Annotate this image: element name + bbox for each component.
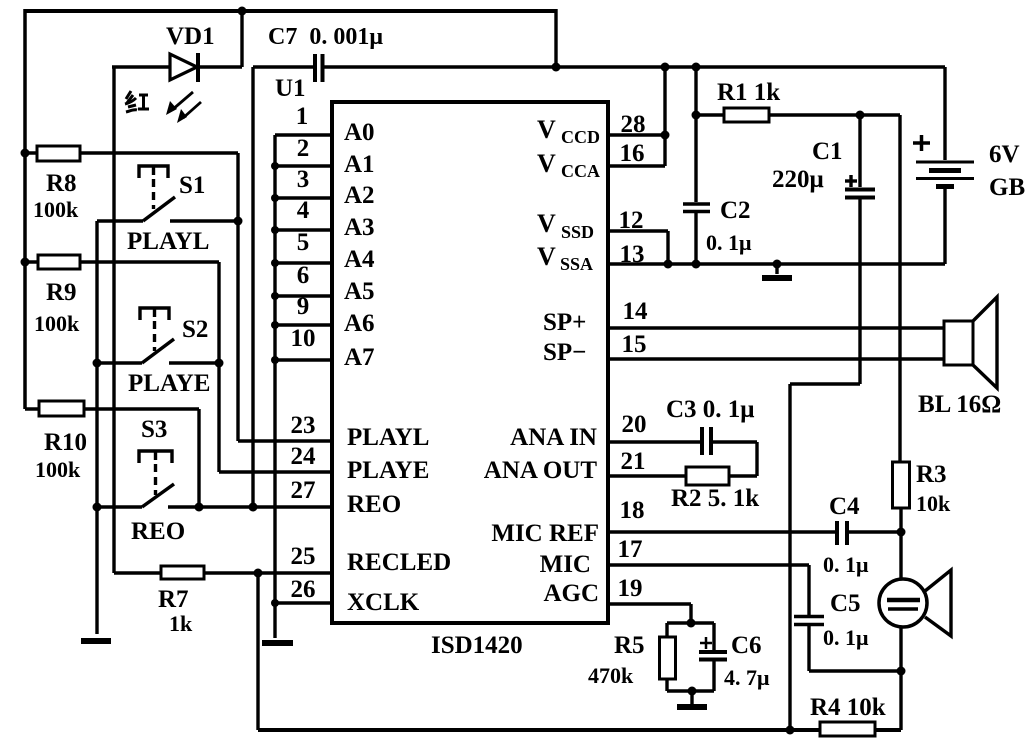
pin label VSSD bbox=[537, 209, 594, 242]
wire: pin15 SP- y=359 to speaker bbox=[608, 357, 944, 361]
svg-text:1: 1 bbox=[296, 103, 309, 130]
svg-text:R10: R10 bbox=[44, 429, 87, 456]
svg-text:100k: 100k bbox=[35, 457, 81, 482]
C1 plus sign bbox=[845, 175, 857, 187]
ground: switch common bbox=[81, 638, 111, 644]
svg-text:CCA: CCA bbox=[561, 161, 600, 181]
IC U1 body bbox=[332, 102, 608, 623]
resistor R1 lead wire y=115 bbox=[696, 113, 900, 116]
junction dot: S2 left / ground rail bbox=[93, 359, 102, 368]
wire: C6 bottom stem x=714 bbox=[712, 661, 715, 691]
junction dot: bottom rail / analog ground drop bbox=[786, 726, 795, 735]
capacitor C5 plates bbox=[794, 617, 824, 625]
label PLAYL (switch) bbox=[127, 228, 209, 255]
svg-text:A7: A7 bbox=[344, 344, 375, 371]
junction dot: R5/C6 bottom bbox=[688, 687, 697, 696]
svg-text:S3: S3 bbox=[141, 416, 167, 443]
junction dot: S1 right contact bbox=[234, 217, 243, 226]
svg-text:VD1: VD1 bbox=[166, 23, 215, 50]
resistor R10 lead wire y=409 bbox=[25, 407, 199, 410]
svg-text:1k: 1k bbox=[169, 611, 193, 636]
wire: pin2 A1 y=166 bbox=[275, 164, 332, 167]
pin label A2 bbox=[344, 182, 375, 209]
svg-text:V: V bbox=[537, 209, 556, 238]
wire: C5 bottom to mic bottom y=671 bbox=[809, 669, 901, 672]
ground: bus ground symbol bbox=[262, 640, 293, 646]
svg-text:16: 16 bbox=[620, 140, 645, 167]
junction dot: R5/C6 top bbox=[687, 619, 696, 628]
wire: pin10 A7 y=360 bbox=[275, 358, 332, 361]
label S1 bbox=[179, 172, 205, 199]
wire: pin5 A4 y=263 bbox=[275, 261, 332, 264]
microphone B body bbox=[879, 579, 927, 627]
svg-text:S1: S1 bbox=[179, 172, 205, 199]
junction dot: REO wire / R10 branch bbox=[195, 503, 204, 512]
svg-text:C2: C2 bbox=[720, 197, 751, 224]
label R3 bbox=[916, 461, 947, 488]
resistor R10 body bbox=[39, 401, 84, 416]
pin label ANA IN bbox=[510, 424, 597, 451]
pin number 28 bbox=[621, 111, 646, 138]
wire: pin26 XCLK y=603 bbox=[275, 601, 332, 604]
pin label XCLK bbox=[347, 589, 420, 616]
wire: C3/R2 right join x=757 (y442-476) bbox=[755, 442, 758, 476]
battery GB plates bbox=[916, 162, 974, 187]
svg-text:V: V bbox=[537, 242, 556, 271]
label C3 value bbox=[666, 396, 754, 423]
wire: pin3 A2 y=198 bbox=[275, 196, 332, 199]
wire: address/XCLK ground bus x=275 (y135-637) bbox=[273, 135, 276, 638]
capacitor C4 plates bbox=[837, 521, 847, 545]
pin number 3 bbox=[297, 166, 310, 193]
svg-text:A1: A1 bbox=[344, 151, 375, 178]
svg-text:C6: C6 bbox=[731, 632, 762, 659]
label S2 bbox=[182, 316, 208, 343]
pin number 1 bbox=[296, 103, 309, 130]
svg-text:19: 19 bbox=[618, 575, 643, 602]
junction dot: VSS rail / ground stub bbox=[773, 260, 782, 269]
ground: VSS rail ground symbol bbox=[762, 264, 792, 278]
svg-text:C7 0. 001μ: C7 0. 001μ bbox=[268, 24, 383, 50]
speaker BL horn bbox=[973, 297, 997, 388]
pin label A4 bbox=[344, 246, 375, 273]
svg-text:0. 1μ: 0. 1μ bbox=[706, 230, 752, 255]
switch S1 blade bbox=[143, 197, 175, 221]
pin number 23 bbox=[291, 412, 316, 439]
pin label VCCA bbox=[537, 149, 600, 181]
svg-text:V: V bbox=[537, 149, 556, 178]
wire: pin1 A0 y=135 bbox=[275, 133, 332, 136]
resistor R7 lead wire y=573 (RECLED pin25) bbox=[114, 571, 332, 574]
label C4 bbox=[829, 493, 860, 520]
label C1 bbox=[812, 138, 843, 165]
wire: R9/S2 branch drop x=219 (y262-472) bbox=[217, 262, 220, 472]
junction dots on ground bus at A1..A7 and XCLK bbox=[271, 162, 279, 607]
label C6 value bbox=[724, 665, 770, 690]
svg-text:25: 25 bbox=[291, 543, 316, 570]
svg-text:24: 24 bbox=[291, 443, 317, 470]
svg-text:3: 3 bbox=[297, 166, 310, 193]
wire: pin17 MIC y=565 bbox=[608, 563, 809, 566]
wire: mic bottom to R4 x=901 (y671-730) bbox=[899, 671, 902, 730]
pin label SP+ bbox=[543, 309, 586, 336]
svg-text:ANA IN: ANA IN bbox=[510, 424, 597, 451]
svg-text:10k: 10k bbox=[916, 491, 951, 516]
junction dot: left rail / R8 bbox=[21, 149, 30, 158]
label C2 value bbox=[706, 230, 752, 255]
label R8 bbox=[46, 170, 77, 197]
pin number 6 bbox=[297, 262, 310, 289]
label R2 value bbox=[671, 485, 759, 512]
capacitor C2 plates bbox=[683, 204, 710, 212]
resistor R4 body bbox=[820, 722, 875, 736]
wire: pin12 VSSD y=231 bbox=[608, 229, 668, 232]
pin number 16 bbox=[620, 140, 645, 167]
switch S2 button bbox=[140, 308, 169, 351]
label C5 bbox=[830, 590, 861, 617]
svg-text:21: 21 bbox=[621, 448, 646, 475]
wire: AGC drop x=691 (y604-623) bbox=[689, 604, 692, 623]
ground: AGC network ground bbox=[677, 691, 707, 707]
wire: R5/C6 top bracket y=623 bbox=[667, 621, 714, 624]
pin number 18 bbox=[620, 497, 645, 524]
svg-text:0. 1μ: 0. 1μ bbox=[823, 625, 869, 650]
label R5 bbox=[614, 632, 645, 659]
capacitor C6 plates bbox=[699, 652, 727, 660]
svg-text:14: 14 bbox=[623, 298, 649, 325]
svg-text:C1: C1 bbox=[812, 138, 843, 165]
switch S1 button bbox=[139, 166, 168, 209]
label R5 value bbox=[588, 663, 634, 688]
pin number 5 bbox=[297, 229, 310, 256]
svg-text:100k: 100k bbox=[33, 197, 79, 222]
pin label A3 bbox=[344, 214, 375, 241]
label R7 value bbox=[169, 611, 193, 636]
junction dot: S3 left / ground rail bbox=[93, 503, 102, 512]
wire: pin23 PLAYL wire y=441 bbox=[238, 439, 332, 442]
pin number 13 bbox=[620, 241, 645, 268]
wire: left supply rail x=25 down to R10 bbox=[23, 9, 27, 409]
wire: R3 bottom to mic top x=901 (y508-579) bbox=[899, 508, 902, 580]
battery GB: top lead x=945 (y67-161) bbox=[943, 67, 946, 160]
svg-text:A5: A5 bbox=[344, 278, 375, 305]
wire: pin6 A5 y=296 bbox=[275, 294, 332, 297]
wire: C7 left stub y=67 bbox=[253, 65, 313, 68]
svg-text:R9: R9 bbox=[46, 279, 77, 306]
resistor R1 body bbox=[724, 108, 769, 122]
svg-text:100k: 100k bbox=[34, 311, 80, 336]
wire: R5/C6 bottom bracket y=691 bbox=[667, 689, 714, 692]
label 6V bbox=[989, 141, 1020, 168]
pin number 14 bbox=[623, 298, 649, 325]
pin number 10 bbox=[291, 325, 316, 352]
svg-text:AGC: AGC bbox=[543, 580, 599, 607]
wire: pin20 ANA IN y=442 bbox=[608, 440, 757, 443]
wire: RECLED drop to bottom rail x=258 (y573-730) bbox=[256, 573, 259, 730]
svg-text:C5: C5 bbox=[830, 590, 861, 617]
svg-text:SSD: SSD bbox=[561, 222, 594, 242]
wire: pin18 MIC REF y=532 with C4 bbox=[608, 530, 901, 533]
LED VD1: anode wire bbox=[112, 65, 170, 68]
pin number 17 bbox=[618, 536, 643, 563]
wire: VSS rail y=264 (pin13 VSSA to battery minus) bbox=[608, 262, 945, 266]
svg-text:R2 5. 1k: R2 5. 1k bbox=[671, 485, 759, 512]
junction dot: S2 right contact bbox=[215, 359, 224, 368]
pin label REO bbox=[347, 491, 401, 518]
pin label MIC bbox=[540, 551, 591, 578]
capacitor C7 plates bbox=[315, 54, 323, 82]
wire: C5 bottom drop x=809 (y625-671) bbox=[807, 626, 810, 671]
resistor R7 body bbox=[161, 566, 204, 579]
svg-text:REO: REO bbox=[131, 518, 185, 545]
junction dot: R1 wire / C1 bbox=[856, 111, 865, 120]
LED VD1: emission arrows bbox=[166, 92, 201, 123]
wire: C6 top stem x=714 bbox=[712, 623, 715, 650]
wire: R10 branch drop x=199 (y409-507) bbox=[197, 409, 200, 507]
label C4 value bbox=[823, 552, 869, 577]
junction dot: RECLED / bottom-rail branch bbox=[254, 569, 263, 578]
pin label RECLED bbox=[347, 549, 451, 576]
battery GB: bottom lead x=945 (y187-264) bbox=[943, 188, 946, 264]
wire: C1 to mic-ground jog y=384 bbox=[790, 382, 860, 385]
LED VD1: triangle and cathode bar bbox=[170, 53, 198, 82]
pin label ANA OUT bbox=[484, 457, 598, 484]
wire: +6V top rail (y=11, x25-556) bbox=[25, 9, 556, 13]
svg-text:26: 26 bbox=[291, 576, 316, 603]
label REO (switch) bbox=[131, 518, 185, 545]
label R4 value bbox=[810, 694, 886, 721]
wire: MIC to C5 drop x=809 (y565-616) bbox=[807, 565, 810, 615]
junction dot: VCC y67 at x556 bbox=[552, 63, 561, 72]
label C5 value bbox=[823, 625, 869, 650]
pin label SP- bbox=[543, 339, 586, 366]
pin number 15 bbox=[622, 331, 647, 358]
pin label VCCD bbox=[537, 115, 600, 147]
svg-text:A0: A0 bbox=[344, 119, 375, 146]
wire: pin21 ANA OUT y=476 bbox=[608, 474, 757, 477]
label VD1 bbox=[166, 23, 215, 50]
svg-text:4: 4 bbox=[297, 197, 310, 224]
svg-text:4. 7μ: 4. 7μ bbox=[724, 665, 770, 690]
svg-text:17: 17 bbox=[618, 536, 643, 563]
svg-text:10: 10 bbox=[291, 325, 316, 352]
pin number 19 bbox=[618, 575, 643, 602]
label R9 value bbox=[34, 311, 80, 336]
svg-text:MIC REF: MIC REF bbox=[491, 520, 599, 547]
label C7 value bbox=[268, 24, 383, 50]
label C6 bbox=[731, 632, 762, 659]
pin label MIC REF bbox=[491, 520, 599, 547]
label BL 16ohm bbox=[918, 391, 1001, 418]
junction dot: VCC y67 at x665 (VCCD/VCCA branch) bbox=[661, 63, 670, 72]
svg-text:2: 2 bbox=[297, 135, 310, 162]
wire: R1/C2 branch x=696 (y67-264) with C2 gap bbox=[694, 67, 697, 264]
svg-text:A3: A3 bbox=[344, 214, 375, 241]
label R8 value bbox=[33, 197, 79, 222]
pin number 21 bbox=[621, 448, 646, 475]
wire: pin24 PLAYE wire y=472 bbox=[219, 470, 332, 473]
label GB bbox=[989, 174, 1025, 201]
svg-text:PLAYL: PLAYL bbox=[347, 424, 429, 451]
pin label PLAYE bbox=[347, 457, 429, 484]
junction dot: R1 left on x696 bbox=[692, 111, 701, 120]
junction dot: VCC y67 at x696 (R1/C2 branch) bbox=[692, 63, 701, 72]
label R9 bbox=[46, 279, 77, 306]
svg-text:RECLED: RECLED bbox=[347, 549, 451, 576]
svg-text:CCD: CCD bbox=[561, 127, 600, 147]
capacitor C1 plates bbox=[845, 190, 875, 198]
wire: mic bottom x=901 (y627-671) bbox=[899, 627, 902, 671]
switch S3 blade bbox=[142, 484, 174, 507]
label S3 bbox=[141, 416, 167, 443]
svg-text:220μ: 220μ bbox=[772, 166, 824, 193]
wire: pin9 A6 y=325 bbox=[275, 323, 332, 326]
svg-text:27: 27 bbox=[291, 477, 316, 504]
C6 plus sign bbox=[700, 637, 712, 649]
svg-text:PLAYE: PLAYE bbox=[128, 370, 210, 397]
junction dot: pin28 wire on x665 bbox=[661, 131, 670, 140]
resistor R2 body bbox=[686, 467, 729, 485]
label R10 value bbox=[35, 457, 81, 482]
wire: pin16 VCCA y=166 bbox=[608, 164, 665, 167]
pin label VSSA bbox=[537, 242, 593, 274]
wire: LED anode drop x=114 (y67-573) bbox=[112, 67, 115, 573]
pin label A5 bbox=[344, 278, 375, 305]
resistor R9 lead wire y=262 bbox=[25, 260, 219, 263]
wire: pin19 AGC y=604 bbox=[608, 602, 691, 605]
resistor R3 body (vertical) bbox=[893, 462, 910, 508]
svg-text:SP+: SP+ bbox=[543, 309, 586, 336]
wire: LED cathode riser x=242 (y11-67) bbox=[240, 11, 243, 67]
wire: R5 bottom stem x=667 bbox=[665, 679, 668, 691]
wire: C7 left branch drop x=253 (y67-507) bbox=[251, 67, 254, 507]
junction dot: mic bottom / C5 bbox=[897, 667, 906, 676]
label "red" chinese char (drawn) bbox=[125, 91, 149, 112]
wire: R1 feed drop x=900 (y115-462) to R3 bbox=[898, 115, 901, 462]
svg-text:23: 23 bbox=[291, 412, 316, 439]
junction dot: VSS rail at x668 bbox=[664, 260, 673, 269]
label C2 bbox=[720, 197, 751, 224]
speaker BL body bbox=[944, 321, 973, 365]
wire: pin28 VCCD y=135 bbox=[608, 133, 665, 136]
svg-text:R3: R3 bbox=[916, 461, 947, 488]
svg-text:BL 16Ω: BL 16Ω bbox=[918, 391, 1001, 418]
pin number 27 bbox=[291, 477, 316, 504]
switch S3 button bbox=[139, 451, 172, 495]
pin number 26 bbox=[291, 576, 316, 603]
pin label A1 bbox=[344, 151, 375, 178]
resistor R8 body bbox=[37, 146, 80, 161]
label R7 bbox=[158, 586, 189, 613]
pin label A7 bbox=[344, 344, 375, 371]
label PLAYE (switch) bbox=[128, 370, 210, 397]
wire: switch common rail x=97 (y221-633) bbox=[95, 221, 98, 634]
label R3 value bbox=[916, 491, 951, 516]
pin number 20 bbox=[622, 411, 647, 438]
svg-text:PLAYE: PLAYE bbox=[347, 457, 429, 484]
svg-text:18: 18 bbox=[620, 497, 645, 524]
svg-text:PLAYL: PLAYL bbox=[127, 228, 209, 255]
svg-text:C3 0. 1μ: C3 0. 1μ bbox=[666, 396, 754, 423]
svg-text:SP−: SP− bbox=[543, 339, 586, 366]
label R1 bbox=[717, 79, 780, 106]
wire: pin14 SP+ y=328 to speaker bbox=[608, 326, 944, 330]
pin number 2 bbox=[297, 135, 310, 162]
wire: analog ground drop x=790 (y384-730) bbox=[788, 384, 791, 730]
junction dot: left rail / R9 bbox=[21, 258, 30, 267]
svg-text:A2: A2 bbox=[344, 182, 375, 209]
svg-text:C4: C4 bbox=[829, 493, 860, 520]
svg-text:SSA: SSA bbox=[560, 254, 593, 274]
svg-text:V: V bbox=[537, 115, 556, 144]
svg-text:5: 5 bbox=[297, 229, 310, 256]
svg-text:ANA OUT: ANA OUT bbox=[484, 457, 598, 484]
switch S2 blade bbox=[142, 339, 174, 363]
svg-text:R1 1k: R1 1k bbox=[717, 79, 780, 106]
svg-text:S2: S2 bbox=[182, 316, 208, 343]
pin label AGC bbox=[543, 580, 599, 607]
junction dot: VSS rail / C2 bbox=[692, 260, 701, 269]
svg-text:R5: R5 bbox=[614, 632, 645, 659]
svg-text:6: 6 bbox=[297, 262, 310, 289]
svg-text:20: 20 bbox=[622, 411, 647, 438]
svg-text:REO: REO bbox=[347, 491, 401, 518]
label C1 value bbox=[772, 166, 824, 193]
pin number 24 bbox=[291, 443, 317, 470]
wire: R5 top stem x=667 bbox=[665, 623, 668, 638]
pin label A0 bbox=[344, 119, 375, 146]
svg-text:470k: 470k bbox=[588, 663, 634, 688]
wire: pin12/13 join x=668 (y231-264) bbox=[666, 231, 669, 264]
label U1 bbox=[275, 75, 306, 102]
capacitor C3 plates bbox=[702, 427, 711, 455]
label R10 bbox=[44, 429, 87, 456]
wire: bottom rail y=730 (RECLED to R4) bbox=[258, 728, 901, 732]
svg-text:R7: R7 bbox=[158, 586, 189, 613]
pin label A6 bbox=[344, 310, 375, 337]
junction dot: top rail / LED cathode riser bbox=[238, 7, 247, 16]
wire: R8/S1 branch drop x=238 (y153-441) bbox=[236, 153, 239, 441]
pin label PLAYL bbox=[347, 424, 429, 451]
resistor R5 body (vertical) bbox=[660, 637, 676, 679]
svg-text:MIC: MIC bbox=[540, 551, 591, 578]
wire: pin4 A3 y=230 bbox=[275, 228, 332, 231]
pin number 25 bbox=[291, 543, 316, 570]
svg-text:R4 10k: R4 10k bbox=[810, 694, 886, 721]
switch S2 wires y=363 bbox=[97, 361, 219, 364]
svg-text:U1: U1 bbox=[275, 75, 306, 102]
svg-text:6V: 6V bbox=[989, 141, 1020, 168]
wire: VCC drop x=665 (y67-166) bbox=[663, 67, 666, 166]
svg-text:A4: A4 bbox=[344, 246, 375, 273]
pin number 9 bbox=[297, 293, 310, 320]
switch S1 wires y=221 bbox=[97, 219, 238, 222]
wire: VCC horizontal y=67 from C7 right plate to battery bbox=[324, 65, 945, 69]
junction dot: REO wire / C7 branch bbox=[249, 503, 258, 512]
junction dot: pin18 net / R3-mic node bbox=[897, 528, 906, 537]
switch S3 wires y=507 (REO net to pin 27) bbox=[97, 505, 332, 508]
pin number 12 bbox=[619, 207, 644, 234]
svg-text:9: 9 bbox=[297, 293, 310, 320]
svg-text:XCLK: XCLK bbox=[347, 589, 420, 616]
wire: C1 branch x=860 (y115-384) with plate gap bbox=[858, 115, 861, 384]
svg-text:R8: R8 bbox=[46, 170, 77, 197]
svg-text:0. 1μ: 0. 1μ bbox=[823, 552, 869, 577]
pin number 4 bbox=[297, 197, 310, 224]
resistor R9 body bbox=[38, 255, 80, 269]
LED VD1: cathode wire to riser bbox=[198, 65, 242, 68]
microphone element plates bbox=[887, 600, 920, 609]
